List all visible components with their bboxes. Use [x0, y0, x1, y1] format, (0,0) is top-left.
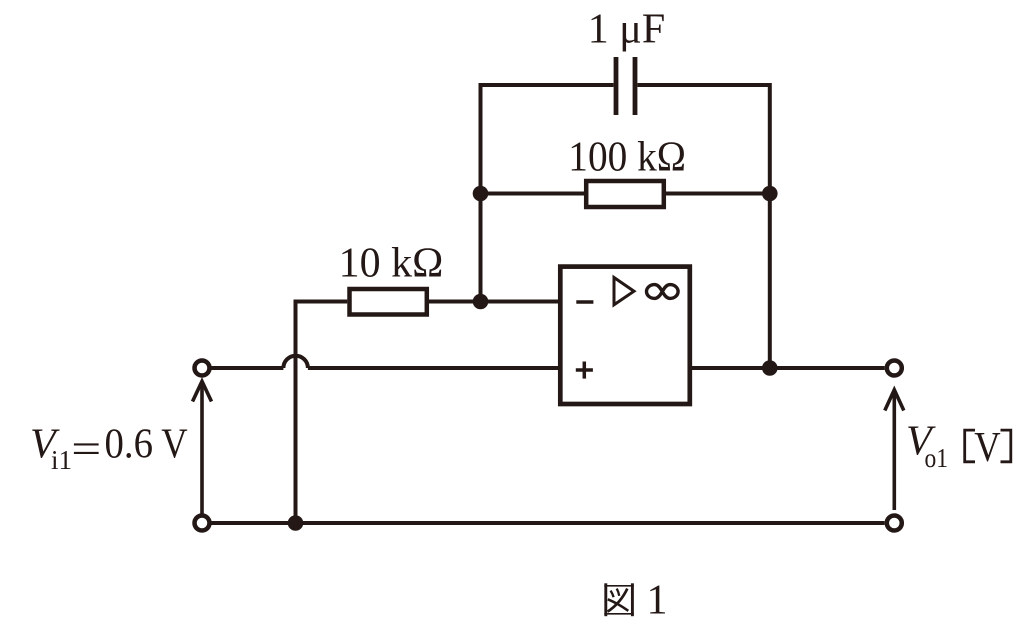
capacitor C1 plate left: [614, 57, 619, 115]
arrow Vo1 (output voltage): [885, 390, 904, 510]
junction dot 100k right: [762, 186, 778, 202]
wire top feedback right segment (capacitor to output node): [638, 85, 770, 368]
svg-text:V: V: [974, 425, 1000, 471]
op-amp infinity symbol: [647, 285, 679, 299]
wire bottom rail: [212, 521, 885, 525]
wire top feedback left segment (node A to capacitor): [481, 85, 614, 302]
terminal input top: [195, 361, 210, 376]
svg-text:=: =: [71, 427, 101, 473]
svg-text:100 kΩ: 100 kΩ: [568, 134, 686, 180]
svg-text:10 kΩ: 10 kΩ: [339, 240, 444, 286]
svg-text:0.6: 0.6: [105, 421, 154, 467]
wire op-amp output to terminal: [692, 366, 885, 370]
terminal input bottom: [195, 516, 210, 531]
wire 100k feedback line left: [481, 192, 585, 196]
svg-text:1: 1: [647, 578, 668, 624]
bracket left of [V]: [965, 430, 1011, 462]
terminal output top: [887, 361, 902, 376]
svg-text:o1: o1: [925, 443, 949, 473]
resistor R1 10 kOhm body: [350, 289, 427, 315]
op-amp triangle symbol: [614, 278, 634, 305]
svg-text:1 μF: 1 μF: [588, 7, 665, 53]
wire 100k feedback line right: [666, 192, 770, 196]
op-amp plus label: [576, 362, 593, 379]
terminal output bottom: [887, 516, 902, 531]
bracket right of [V]: [1001, 430, 1011, 462]
junction dot output node: [762, 360, 778, 376]
op-amp minus label: [576, 300, 593, 304]
wire noninverting input right part: [308, 366, 558, 370]
junction dot inverting input node: [473, 294, 489, 310]
resistor R2 100 kOhm body: [586, 181, 664, 207]
wire input to resistor R1: [296, 302, 348, 524]
arrow Vi1 (input voltage): [193, 381, 212, 513]
label Vi1 = 0.6 V: [30, 421, 188, 475]
junction dot bottom rail: [288, 515, 304, 531]
wire R1 to inverting input: [429, 300, 558, 304]
wire noninverting input left part: [212, 366, 284, 370]
wire hop over vertical: [283, 356, 308, 368]
label Vo1 [V]: [906, 419, 1001, 473]
junction node A dot (100k left): [473, 186, 489, 202]
capacitor C1 plate right: [633, 57, 638, 115]
svg-text:V: V: [161, 421, 187, 467]
op-amp U1 body: [560, 267, 690, 404]
caption kanji Zu (figure): [604, 583, 634, 616]
svg-text:i1: i1: [51, 445, 72, 475]
